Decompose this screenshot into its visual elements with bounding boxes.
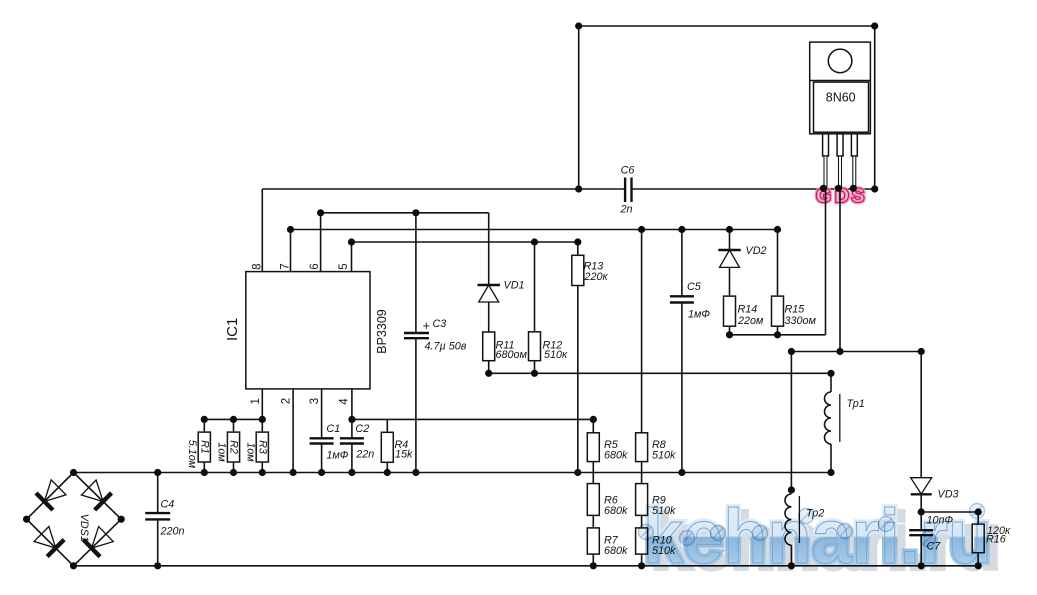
svg-text:IC1: IC1 (224, 318, 241, 341)
svg-text:220n: 220n (160, 526, 185, 538)
wire R14 bottom (729, 326, 731, 335)
svg-text:4: 4 (339, 398, 351, 405)
wire pin7 stub (290, 230, 292, 272)
wire R12 bottom lead (534, 361, 536, 374)
svg-text:BP3309: BP3309 (375, 309, 389, 354)
wire R3 top lead (261, 419, 263, 432)
op-amp IC1 body (BP3309 controller) (246, 272, 370, 389)
wire C1 bottom lead (321, 444, 323, 473)
wire VD1 string upper (488, 213, 490, 285)
wire R3 bottom lead (261, 462, 263, 473)
resistor R15 (772, 296, 784, 326)
wire C2 top lead (351, 419, 353, 438)
svg-text:22n: 22n (355, 449, 374, 461)
wire pin1 lead (261, 389, 263, 420)
junction R2 bottom (230, 469, 237, 476)
svg-text:+: + (423, 319, 430, 333)
junction R16 bottom (975, 562, 982, 569)
junction C5 bottom (678, 469, 685, 476)
junction source corner (871, 185, 878, 192)
junction Tp2 top (788, 486, 795, 493)
junction R15 top (774, 226, 781, 233)
diode VD1 cathode bar (478, 284, 500, 286)
inductor Tp1 winding (825, 392, 831, 444)
inductor Tp2 winding (785, 494, 791, 545)
junction Tp2 bottom (788, 562, 795, 569)
wire VD1 to R11 (488, 302, 490, 332)
junction G leg on C6 line (820, 185, 827, 192)
transistor Q1 8N60 package outline (810, 42, 871, 134)
junction VD2 top (726, 226, 733, 233)
wire R12 top lead (534, 242, 536, 332)
junction R12 top (531, 238, 538, 245)
transistor leg G lower (824, 156, 827, 189)
transistor leg D upper (837, 134, 843, 156)
wire C5 top lead (681, 230, 683, 297)
transformer Tp2 core bar (798, 496, 800, 543)
junction bridge plus corner (70, 469, 77, 476)
transistor leg G upper (823, 134, 829, 156)
wire C2 bottom lead (351, 444, 353, 473)
svg-text:VD1: VD1 (504, 280, 525, 292)
wire gate bus y334.8 (730, 334, 826, 336)
svg-text:15k: 15k (395, 449, 413, 461)
wire Tp2 feed vertical (790, 352, 792, 491)
wire C7 top lead (920, 512, 922, 530)
wire R16 top lead (977, 512, 979, 524)
wire Tp1 bottom lead (830, 444, 832, 473)
wire R7 bottom (592, 554, 594, 566)
svg-text:2n: 2n (619, 204, 632, 216)
wire bus y373.3 (R11/R12 to Tp1) (489, 372, 831, 374)
wire pin6 bus y212.8 (321, 212, 489, 214)
svg-text:8: 8 (252, 263, 264, 269)
wire R16 bottom lead (977, 553, 979, 566)
resistor R11 (483, 332, 495, 361)
junction R16 top (975, 508, 982, 515)
wire R11 bottom (488, 361, 490, 374)
wire Tp1 bus y351.5 (791, 351, 921, 353)
svg-text:VD2: VD2 (746, 245, 767, 257)
wire R8 top long lead (641, 230, 643, 433)
wire C7-R16 link (921, 511, 978, 513)
resistor R9 (636, 484, 648, 516)
wire R1-R3 top bus (204, 418, 262, 420)
diode bridge bottom-right (92, 527, 114, 549)
svg-text:7: 7 (280, 263, 292, 269)
wire VD3 to C7 node (920, 494, 922, 512)
svg-text:330ом: 330ом (785, 315, 817, 327)
resistor R1 (198, 432, 210, 462)
capacitor C1 plates (310, 437, 334, 439)
watermark kehnari.ru (643, 494, 1000, 585)
wire R4 bottom lead (386, 462, 388, 472)
junction C4 top (154, 469, 161, 476)
watermark screw decorations (639, 504, 985, 547)
wire R13 bottom long lead (577, 286, 579, 473)
junction Tp1 bus left (788, 348, 795, 355)
resistor R13 (572, 255, 584, 285)
wire bridge edge top-right (74, 473, 122, 520)
wire VD3 top lead (920, 352, 922, 478)
junction R3 top (259, 416, 266, 423)
junction D leg on C6 line (835, 185, 842, 192)
junction R1 top (201, 416, 208, 423)
capacitor C6 (624, 178, 626, 203)
svg-text:kehnari.ru: kehnari.ru (643, 494, 992, 580)
wire VD2 top lead (729, 230, 731, 251)
wire pin5 stub (351, 242, 353, 272)
wire drain vertical (839, 189, 841, 352)
wire R6-R7 (592, 515, 594, 528)
wire pin6 stub (320, 213, 322, 272)
wire C4 top lead (157, 473, 159, 514)
svg-text:1: 1 (250, 398, 262, 404)
resistor R14 (724, 296, 736, 326)
junction R12 bottom (531, 370, 538, 377)
diode bridge top-right (81, 480, 103, 502)
svg-text:680k: 680k (604, 450, 628, 462)
wire R9-R10 (641, 515, 643, 528)
resistor R5 (587, 433, 599, 462)
junction Tp1 bottom (827, 469, 834, 476)
junction pin5 (348, 238, 355, 245)
svg-text:5: 5 (338, 263, 350, 269)
junction pin2 bottom (290, 469, 297, 476)
wire C6 line left segment (262, 188, 625, 190)
wire pin4 bus y419.4 (352, 418, 593, 420)
junction R2 top (230, 416, 237, 423)
svg-text:R15: R15 (785, 304, 806, 316)
svg-text:680ом: 680ом (496, 349, 528, 361)
resistor R12 (529, 332, 541, 361)
svg-text:510k: 510k (652, 450, 676, 462)
svg-text:C6: C6 (621, 165, 635, 177)
diode VD2 cathode bar (718, 249, 740, 251)
junction C2 bottom (348, 469, 355, 476)
transistor leg D lower (839, 156, 842, 189)
wire R1 bottom lead (203, 462, 205, 473)
diode bridge top-left (44, 480, 66, 502)
junction Tp1 top (827, 370, 834, 377)
resistor R8 (636, 433, 648, 462)
diode bridge bottom-left (34, 527, 56, 549)
svg-text:2: 2 (281, 398, 293, 404)
svg-text:R1: R1 (199, 440, 211, 454)
junction R5 top (590, 416, 597, 423)
svg-text:C5: C5 (687, 281, 702, 293)
junction R15 bottom (774, 331, 781, 338)
transformer Tp1 core bar (839, 394, 841, 442)
wire bridge edge top-left (27, 473, 74, 520)
diode VD3 cathode bar (911, 493, 932, 495)
junction R13 top (574, 238, 581, 245)
svg-text:C3: C3 (433, 318, 447, 330)
svg-text:220к: 220к (584, 271, 609, 283)
svg-text:C1: C1 (326, 423, 340, 435)
wire R15 top lead (777, 230, 779, 297)
wire R5-R6 (592, 462, 594, 484)
junction R10 bottom (638, 562, 645, 569)
wire bridge edge bottom-right (74, 519, 122, 566)
capacitor C5 plates (670, 295, 694, 297)
svg-text:R14: R14 (738, 304, 758, 316)
wire R15 bottom (777, 326, 779, 335)
transistor mounting hole (828, 49, 852, 73)
junction R8 net on pin7 bus (638, 226, 645, 233)
svg-text:6: 6 (309, 263, 321, 269)
junction R7 bottom (590, 562, 597, 569)
wire bridge edge bottom-left (27, 519, 74, 566)
junction C4 bottom (154, 562, 161, 569)
junction C3 bottom (412, 469, 419, 476)
junction R4 bottom (384, 469, 391, 476)
resistor R10 (636, 528, 648, 554)
wire R2 bottom lead (233, 462, 235, 473)
svg-text:3: 3 (309, 398, 321, 404)
junction pin7 (287, 226, 294, 233)
junction bridge minus corner (70, 562, 77, 569)
capacitor C4 plates (145, 512, 170, 514)
wire R10 bottom (641, 554, 643, 566)
junction S leg on C6 line (850, 185, 857, 192)
junction C5 top (678, 226, 685, 233)
capacitor C7 plates (909, 529, 933, 531)
diode VD2 triangle (720, 250, 740, 267)
junction top-left (575, 22, 582, 29)
junction top-right (871, 22, 878, 29)
node AC input right (118, 516, 125, 523)
junction at x579 on C6 line (575, 185, 582, 192)
svg-text:1ом: 1ом (245, 442, 257, 462)
diode VD1 triangle (479, 285, 499, 302)
wire pin5 bus y242 (352, 241, 578, 243)
transistor leg S lower (853, 156, 856, 189)
transistor leg S upper (851, 134, 857, 156)
svg-text:510к: 510к (544, 349, 568, 361)
wire C4 bottom lead (157, 519, 159, 565)
capacitor C3 plates (404, 332, 429, 334)
transistor body inner rect (814, 82, 869, 132)
junction C3 top on pin6 bus (412, 209, 419, 216)
wire gate vertical (825, 189, 827, 335)
junction R1 bottom (201, 469, 208, 476)
svg-text:5.1ом: 5.1ом (186, 440, 198, 469)
wire R4 top lead (386, 419, 388, 432)
capacitor C2 plates (340, 437, 364, 439)
wire C3 top lead (415, 213, 417, 333)
wire VD2 to R14 (729, 267, 731, 296)
wire R1 top lead (203, 419, 205, 432)
junction C1 bottom (318, 469, 325, 476)
node AC input left (23, 516, 30, 523)
wire C3 bottom lead (415, 338, 417, 472)
junction pin6 (317, 209, 324, 216)
resistor R3 (256, 432, 268, 462)
svg-text:1мФ: 1мФ (688, 309, 710, 321)
wire Tp2 bottom lead (790, 545, 792, 566)
svg-text:1мФ: 1мФ (326, 450, 348, 462)
junction R13 bottom (574, 469, 581, 476)
wire bus y472.5 (74, 472, 832, 474)
resistor R4 (381, 432, 393, 462)
wire pin2 lead (292, 389, 294, 473)
wire left vertical drop (578, 26, 580, 189)
resistor R6 (587, 484, 599, 516)
junction R3 bottom (259, 469, 266, 476)
junction pin4 (348, 416, 355, 423)
diode VD3 triangle (911, 478, 932, 494)
wire R8-R9 (641, 462, 643, 484)
svg-text:VDS1: VDS1 (78, 514, 90, 542)
svg-text:R2: R2 (228, 440, 240, 454)
svg-text:680k: 680k (604, 505, 628, 517)
svg-text:4.7µ 50в: 4.7µ 50в (425, 341, 467, 353)
wire R2 top lead (233, 419, 235, 432)
svg-text:1ом: 1ом (216, 442, 228, 462)
wire pin3 to C1 (321, 389, 323, 438)
junction C7 bottom (918, 562, 925, 569)
wire C6 line right segment (632, 188, 875, 190)
svg-text:680k: 680k (604, 545, 628, 557)
wire pin7 bus y229.5 (291, 229, 778, 231)
junction R14 bottom (726, 331, 733, 338)
svg-text:8N60: 8N60 (826, 90, 856, 104)
svg-text:C2: C2 (355, 423, 369, 435)
wire bottom bus (74, 565, 979, 567)
junction Tp1 bus right (VD3) (918, 348, 925, 355)
wire R5 top lead (592, 419, 594, 432)
junction drain on Tp1 bus (836, 348, 843, 355)
wire R13 top lead (577, 242, 579, 255)
junction R11 bottom (485, 370, 492, 377)
wire Tp1 top lead (830, 373, 832, 392)
resistor R2 (227, 432, 239, 462)
resistor R16 (972, 524, 984, 553)
transistor tab separator (810, 80, 871, 82)
wire pin4 stub (351, 389, 353, 420)
wire C7 bottom lead (920, 535, 922, 566)
junction C7 top (918, 508, 925, 515)
svg-text:C4: C4 (161, 499, 175, 511)
wire pin8 net (to C6 line) (261, 189, 263, 272)
wire top bus (drain snubber top) (579, 25, 875, 27)
wire C5 bottom lead (681, 303, 683, 473)
svg-text:22ом: 22ом (737, 315, 764, 327)
svg-text:Тр1: Тр1 (847, 398, 865, 410)
wire right vertical drop (source) (874, 26, 876, 189)
resistor R7 (587, 528, 599, 554)
svg-text:R3: R3 (257, 440, 269, 454)
